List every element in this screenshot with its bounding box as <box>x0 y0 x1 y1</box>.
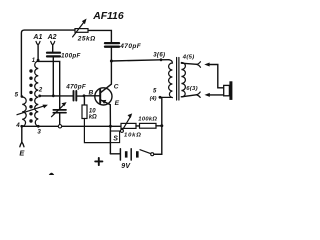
svg-text:3: 3 <box>37 129 41 136</box>
svg-text:4(5): 4(5) <box>182 55 195 61</box>
svg-text:kΩ: kΩ <box>89 114 97 120</box>
svg-text:470pF: 470pF <box>65 83 86 90</box>
svg-text:A2: A2 <box>47 34 57 41</box>
svg-text:6(3): 6(3) <box>186 86 198 92</box>
svg-text:100kΩ: 100kΩ <box>138 117 157 123</box>
svg-text:9V: 9V <box>121 163 131 170</box>
svg-text:S: S <box>113 136 118 143</box>
svg-text:100pF: 100pF <box>61 53 81 60</box>
svg-text:4: 4 <box>15 122 20 129</box>
svg-text:2: 2 <box>38 88 43 94</box>
svg-text:25kΩ: 25kΩ <box>77 35 96 42</box>
svg-text:A1: A1 <box>32 34 42 41</box>
svg-text:E: E <box>115 100 120 107</box>
svg-text:AF116: AF116 <box>92 11 124 22</box>
svg-text:(4): (4) <box>150 96 157 102</box>
svg-text:5: 5 <box>153 88 157 94</box>
svg-text:B: B <box>89 89 94 96</box>
svg-text:5: 5 <box>15 91 19 98</box>
svg-text:470pF: 470pF <box>119 43 141 50</box>
svg-text:E: E <box>19 149 25 158</box>
svg-text:3(6): 3(6) <box>153 52 165 58</box>
svg-text:C: C <box>114 84 119 91</box>
svg-text:10kΩ: 10kΩ <box>124 132 142 138</box>
